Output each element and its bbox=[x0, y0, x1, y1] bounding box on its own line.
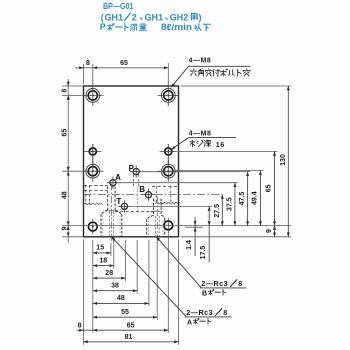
dimension 27.5 bbox=[214, 195, 224, 226]
counterbore bolt hole mid-left bbox=[82, 161, 103, 182]
hidden passage to A (left face) bbox=[84, 184, 108, 186]
svg-text:28: 28 bbox=[105, 270, 113, 277]
M8 tapped hole tapped-right bbox=[160, 144, 177, 165]
plate outline bbox=[84, 86, 179, 237]
svg-text:BP—G01: BP—G01 bbox=[103, 1, 134, 11]
dimension 37.5 bbox=[226, 183, 236, 226]
svg-text:65: 65 bbox=[266, 184, 273, 192]
svg-text:65: 65 bbox=[61, 129, 68, 137]
svg-text:130: 130 bbox=[280, 154, 287, 166]
A/B cross passage centerline bbox=[84, 194, 223, 196]
hidden passage top edge right (B side) bbox=[152, 185, 179, 187]
extension tapped row right bbox=[177, 150, 277, 152]
svg-text:49.4: 49.4 bbox=[252, 191, 259, 205]
leader 4-M8 socket bolt holes bbox=[171, 66, 251, 87]
A well inner drill (hidden) bbox=[110, 212, 114, 237]
label hex socket bolt hole (kanji) bbox=[192, 68, 195, 71]
svg-text:(: ( bbox=[101, 12, 104, 22]
svg-text:B: B bbox=[202, 290, 207, 297]
extension small step (1.4) bbox=[185, 226, 203, 228]
svg-text:A: A bbox=[115, 173, 121, 182]
dimension 18 bottom bbox=[93, 257, 114, 267]
hidden drill right box vertical bbox=[155, 186, 157, 202]
bottom extension lines bbox=[84, 234, 179, 345]
A port well skirt (Rc3/8 thread, hidden) bbox=[101, 214, 122, 237]
svg-text:8: 8 bbox=[238, 281, 242, 288]
port A bbox=[107, 177, 119, 189]
leader 2-Rc3/8 A port bbox=[111, 236, 231, 317]
B port well neck (hidden) bbox=[154, 199, 162, 216]
extension bottom edge right bbox=[181, 236, 292, 238]
svg-text:18: 18 bbox=[99, 257, 107, 264]
svg-text:27.5: 27.5 bbox=[214, 204, 221, 218]
dimension 8 top bbox=[75, 60, 93, 69]
B well inner drill (hidden) bbox=[155, 216, 159, 236]
dimension 48 left bbox=[61, 171, 69, 226]
svg-text:1: 1 bbox=[158, 12, 163, 22]
leader 2-Rc3/8 B port bbox=[156, 236, 247, 288]
extension lines left bbox=[62, 86, 83, 237]
svg-text:1: 1 bbox=[118, 12, 123, 22]
extension from T bbox=[128, 205, 213, 207]
svg-text:65: 65 bbox=[120, 60, 128, 67]
dimension 65 top bbox=[93, 60, 169, 69]
svg-text:2: 2 bbox=[183, 12, 188, 22]
extension bolt row right bbox=[176, 170, 264, 172]
port P bbox=[130, 165, 142, 177]
dimension 28 bottom bbox=[93, 270, 126, 280]
A port well neck (hidden) bbox=[108, 187, 115, 211]
svg-text:4—M8: 4—M8 bbox=[189, 57, 212, 64]
extension top edge right bbox=[181, 85, 292, 87]
svg-text:17.5: 17.5 bbox=[200, 246, 207, 260]
hidden drill under P bbox=[134, 175, 139, 212]
svg-text:16: 16 bbox=[216, 140, 225, 149]
B well centerline bbox=[156, 197, 158, 244]
bottom hole bottom-left bbox=[88, 219, 97, 234]
dimension 49.4 bbox=[252, 171, 262, 226]
svg-text:48: 48 bbox=[61, 191, 68, 199]
svg-text:9: 9 bbox=[61, 227, 68, 231]
svg-text:8ℓ/min: 8ℓ/min bbox=[161, 22, 192, 32]
svg-text:4—M8: 4—M8 bbox=[189, 131, 212, 138]
B port well skirt (Rc3/8 thread, hidden) bbox=[147, 219, 165, 237]
svg-text:15: 15 bbox=[96, 245, 104, 252]
svg-text:): ) bbox=[199, 12, 202, 22]
svg-text:P: P bbox=[129, 164, 135, 173]
A port well shoulder bbox=[101, 211, 121, 215]
svg-text:55: 55 bbox=[121, 309, 129, 316]
svg-text:65: 65 bbox=[127, 322, 135, 329]
counterbore bolt hole top-right bbox=[158, 85, 179, 106]
left face thread (zigzag) bbox=[84, 203, 103, 205]
hidden drill left-edge verticals bbox=[86, 185, 90, 204]
dimension 48 bottom bbox=[93, 295, 149, 305]
svg-text:2—Rc3: 2—Rc3 bbox=[201, 279, 228, 288]
svg-text:2: 2 bbox=[132, 12, 137, 22]
hidden cross passage between wells bbox=[115, 211, 153, 213]
A well centerline bbox=[110, 184, 112, 244]
svg-text:38: 38 bbox=[111, 282, 119, 289]
dimension 65 left bbox=[61, 95, 69, 171]
dimension 47.5 bbox=[239, 172, 249, 226]
svg-text:8: 8 bbox=[223, 310, 227, 317]
hidden passage to A lower line bbox=[84, 190, 108, 192]
hidden drill right-edge vertical bbox=[170, 186, 172, 202]
svg-text:9: 9 bbox=[266, 229, 273, 233]
dimension 38 bottom bbox=[93, 282, 137, 292]
label thread depth 16 (kanji) bbox=[191, 139, 194, 142]
dimension 8 bottom bbox=[77, 322, 84, 331]
svg-text:47.5: 47.5 bbox=[239, 192, 246, 206]
extension from A bbox=[116, 182, 238, 184]
svg-text:H: H bbox=[177, 12, 184, 22]
counterbore bolt hole mid-right bbox=[158, 161, 179, 182]
dimension 1.4 bbox=[186, 217, 197, 256]
leader 4-M8 tapped bbox=[171, 138, 236, 150]
dimension 55 bottom bbox=[93, 309, 157, 319]
dimension 9 left bbox=[61, 226, 69, 237]
dimension 81 bottom bbox=[84, 334, 179, 343]
dimension 15 bottom bbox=[93, 245, 111, 255]
dimension 130 bbox=[280, 86, 290, 237]
right face thread (zigzag) bbox=[155, 202, 180, 204]
svg-text:P: P bbox=[100, 22, 106, 32]
svg-text:T: T bbox=[116, 197, 121, 206]
extension lines top bbox=[84, 63, 169, 90]
svg-text:8: 8 bbox=[78, 322, 82, 329]
dimension 17.5 bbox=[200, 206, 211, 262]
svg-text:37.5: 37.5 bbox=[226, 197, 233, 211]
svg-text:8: 8 bbox=[86, 60, 90, 67]
svg-text:81: 81 bbox=[125, 334, 133, 341]
extension bottom holes row bbox=[62, 225, 291, 227]
counterbore bolt hole top-left bbox=[82, 85, 103, 106]
B port well shoulder bbox=[147, 211, 165, 219]
dimension 8 left bbox=[61, 82, 69, 100]
svg-text:H: H bbox=[152, 12, 159, 22]
svg-text:A: A bbox=[187, 319, 192, 326]
svg-text:2—Rc3: 2—Rc3 bbox=[186, 308, 213, 317]
port B bbox=[142, 189, 154, 201]
svg-text:B: B bbox=[139, 185, 145, 194]
bottom hole bottom-right bbox=[164, 218, 173, 233]
svg-text:8: 8 bbox=[61, 89, 68, 93]
port T bbox=[118, 200, 130, 212]
M8 tapped hole tapped-left bbox=[84, 144, 101, 165]
dimension 65 bottom bbox=[84, 322, 169, 331]
extension from P bbox=[142, 171, 250, 173]
dimension 9 right bbox=[266, 226, 276, 237]
dimension 65 right bbox=[266, 151, 277, 236]
svg-text:H: H bbox=[112, 12, 119, 22]
left chain line bbox=[67, 79, 69, 243]
svg-text:48: 48 bbox=[117, 295, 125, 302]
svg-text:1.4: 1.4 bbox=[186, 240, 193, 250]
